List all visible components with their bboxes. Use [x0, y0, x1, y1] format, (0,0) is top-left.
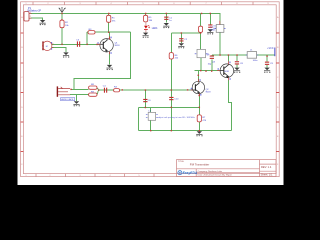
wire cap C7 stubs — [211, 55, 213, 71]
wire C9 branch — [266, 55, 268, 61]
ground claw bottom rail — [196, 131, 202, 136]
resistor R7 — [197, 115, 201, 122]
microphone M1 — [42, 41, 53, 50]
wire jack sleeve ground — [76, 95, 78, 101]
wire q2 emitter chain — [198, 94, 200, 131]
wire bottom ground rail — [139, 130, 232, 132]
ground claw connector — [40, 20, 46, 25]
wire q3 base rail — [195, 70, 220, 72]
svg-text:9VBattery-2P: 9VBattery-2P — [27, 9, 41, 12]
title block — [177, 160, 277, 177]
inductor box3 L3 — [148, 112, 155, 120]
wire C8 branch — [236, 55, 238, 61]
svg-text:2: 2 — [30, 16, 31, 18]
connector P1 — [24, 12, 32, 21]
wire C2 branch vertical — [180, 33, 182, 43]
resistor R3 — [88, 31, 95, 34]
inductor box1 — [216, 25, 224, 33]
ground claw C9 — [264, 68, 270, 73]
resistor R9 — [89, 93, 97, 96]
transistor Q3 — [220, 64, 234, 78]
inductor L1 right — [247, 52, 256, 59]
wire tank vertical B — [170, 90, 172, 131]
pin stubs red transistors — [98, 21, 228, 96]
svg-text:LED1: LED1 — [152, 28, 158, 30]
capacitor C4 — [104, 88, 107, 93]
wire q3 emitter staircase — [228, 80, 231, 131]
EasyEDA logo — [178, 171, 198, 176]
wire C9 to ground stub — [266, 65, 268, 67]
ground claw jack — [73, 101, 79, 106]
svg-text:9018: 9018 — [206, 91, 212, 93]
resistor R6 — [169, 53, 173, 59]
wire q3 collector stub — [227, 55, 229, 62]
ground claw C8 — [234, 68, 240, 73]
ground claw C1 — [163, 23, 169, 28]
wire box1 bottom vertical — [219, 32, 221, 55]
frame zone numbers — [21, 3, 279, 177]
resistor R bias — [199, 26, 203, 32]
background black — [0, 0, 300, 185]
crystal box2 — [197, 49, 206, 57]
svg-text:Sheet: 1/1: Sheet: 1/1 — [261, 173, 273, 177]
ground claw C5 — [207, 29, 213, 34]
ground claw mic — [63, 52, 69, 57]
svg-text:1: 1 — [30, 12, 31, 14]
ground claw C2 — [178, 43, 184, 48]
wire q1 collector stub — [109, 32, 111, 39]
transistor Q1 — [100, 39, 113, 53]
wire q2 collector stub — [197, 71, 199, 82]
frame zone ticks right — [276, 33, 279, 152]
wire q1 emitter — [109, 52, 111, 65]
wire jack bot to R9 — [70, 94, 89, 96]
pin number specks blue — [51, 37, 230, 96]
frame inner border — [23, 5, 276, 174]
wire C1 branch vertical — [165, 13, 167, 22]
wire tank vertical A — [144, 90, 146, 108]
wire rail to claw stub — [198, 130, 200, 132]
svg-text:Company: Northern Labs: Company: Northern Labs — [198, 170, 223, 173]
resistor R4 — [114, 89, 120, 92]
capacitor C1 — [164, 17, 168, 20]
capacitor C2 — [179, 38, 183, 41]
wire audio base line — [99, 89, 193, 91]
capacitor C8 — [235, 61, 239, 64]
svg-text:330n: 330n — [210, 29, 216, 31]
resistor R1 — [107, 15, 111, 22]
wire box2 to base rail — [200, 58, 202, 71]
frame outer border — [21, 2, 280, 177]
resistor R2 — [60, 20, 64, 28]
wire q1 base line — [52, 43, 100, 45]
capacitor C6 tank A — [143, 99, 147, 102]
ground claw LED — [143, 33, 149, 38]
wire tank middle horizontal — [139, 107, 200, 109]
resistor R5 — [144, 15, 148, 22]
wire R2 branch vertical — [61, 13, 63, 44]
wire R6 vertical — [170, 33, 172, 90]
svg-text:+VCC: +VCC — [267, 48, 274, 50]
wire y35 horizontal — [171, 33, 200, 50]
capacitor C7 — [210, 56, 214, 59]
wire mic pin2 to ground — [52, 48, 66, 53]
wire rail2 right drop feedback — [74, 32, 131, 89]
capacitor C9 — [265, 62, 269, 65]
svg-text:Date: 2023-04-20 Drawn By:: Date: 2023-04-20 Drawn By: Wyatt — [198, 174, 232, 177]
svg-text:adjust coil spacing to tune 88: adjust coil spacing to tune 88 - 108 MHz — [158, 116, 195, 119]
wire LED branch vertical — [145, 13, 147, 16]
label AUDIO JACK — [61, 98, 75, 102]
wire C8 to ground stub — [236, 65, 238, 68]
wire rail1 top — [31, 13, 220, 24]
capacitor C5 — [208, 24, 212, 27]
svg-text:9018: 9018 — [115, 45, 121, 47]
wire R bias branch vertical — [200, 13, 202, 26]
frame zone ticks bottom — [36, 174, 154, 177]
wire R1 branch vertical — [108, 13, 110, 32]
audio jack J1 — [57, 86, 70, 96]
svg-text:REV: 1.4: REV: 1.4 — [261, 165, 272, 169]
wire merge stubs — [97, 88, 99, 95]
capacitor C10 tank B — [169, 97, 173, 100]
transistor Q2 — [192, 81, 204, 94]
capacitor C3 — [77, 41, 80, 46]
wire C5 branch vertical — [209, 13, 211, 24]
svg-text:TITLE:: TITLE: — [178, 161, 185, 163]
LED LED1 — [144, 22, 150, 33]
wire rail2 — [87, 31, 130, 33]
svg-text:M: M — [46, 46, 48, 48]
wire right vcc rail — [212, 54, 274, 56]
svg-text:100n: 100n — [253, 60, 259, 62]
svg-text:EasyEDA: EasyEDA — [183, 171, 198, 175]
ground claw Q1 emitter — [106, 65, 112, 70]
sheet — [18, 0, 284, 185]
wire pin2 of connector to ground — [31, 18, 43, 20]
power port +VCC — [267, 48, 275, 57]
frame zone ticks left — [21, 33, 24, 152]
wire rail2 left drop to base — [86, 32, 88, 44]
antenna — [59, 8, 66, 13]
wire jack top to R8 — [71, 88, 89, 91]
resistor R8 — [89, 86, 97, 89]
frame zone ticks top — [33, 2, 253, 5]
svg-text:FM Transmitter: FM Transmitter — [190, 162, 209, 166]
svg-text:AUDIO JACK: AUDIO JACK — [61, 98, 74, 101]
